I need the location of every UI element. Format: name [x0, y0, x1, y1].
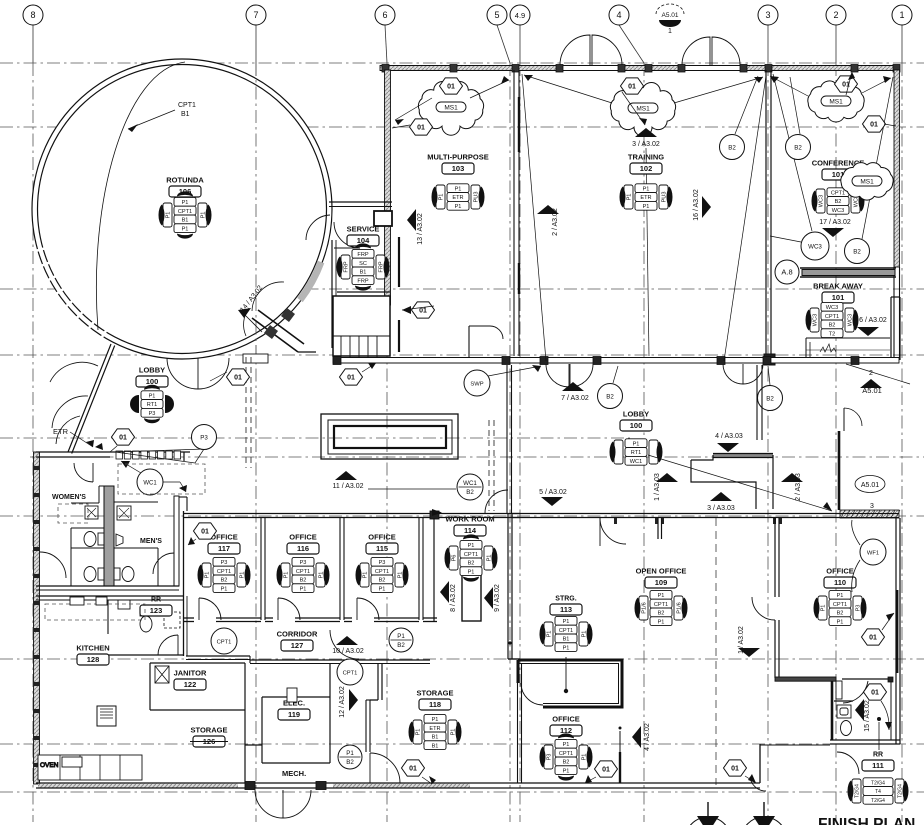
svg-text:KITCHEN: KITCHEN — [76, 644, 109, 653]
svg-text:CPT1: CPT1 — [831, 190, 845, 196]
strg 113 walls — [518, 660, 622, 707]
east wall piece x=839 — [838, 431, 841, 510]
section marker 2/A3.02 — [537, 205, 559, 214]
leader arrowheads — [395, 72, 891, 314]
svg-text:P1: P1 — [205, 572, 211, 579]
keynote hexagon 01 — [440, 78, 463, 94]
small wall marks — [287, 688, 297, 702]
svg-text:WC1: WC1 — [143, 480, 157, 486]
finish tag service 104 — [336, 243, 389, 290]
tag circle WF1 — [860, 539, 886, 565]
svg-text:FRP: FRP — [357, 252, 368, 258]
room label OFFICE 115 — [366, 533, 398, 555]
svg-text:9 / A3.02: 9 / A3.02 — [494, 584, 501, 612]
north wall of lower-left block — [36, 452, 190, 457]
room label ROTUNDA 106 — [166, 176, 204, 198]
svg-text:127: 127 — [291, 641, 304, 650]
svg-text:SC: SC — [359, 261, 367, 267]
svg-text:A5.01: A5.01 — [862, 386, 882, 395]
svg-text:B2: B2 — [379, 578, 386, 584]
svg-text:17 / A3.02: 17 / A3.02 — [819, 219, 851, 226]
leaders clouds/hex to walls — [392, 72, 896, 310]
svg-text:RT1: RT1 — [631, 450, 641, 456]
svg-text:8 / A3.02: 8 / A3.02 — [450, 584, 457, 612]
grid bubble 7 — [246, 5, 266, 25]
rr 111 sink — [837, 705, 852, 736]
svg-text:B2: B2 — [300, 578, 307, 584]
kitchen counters bottom — [38, 755, 142, 780]
wall between multi-purpose 103 and training 102 — [514, 70, 519, 356]
lobby west tag side arrows — [130, 395, 139, 413]
conference sight diagonals — [773, 74, 812, 231]
svg-text:STORAGE: STORAGE — [191, 726, 228, 735]
svg-text:CORRIDOR: CORRIDOR — [277, 630, 318, 639]
svg-text:01: 01 — [201, 529, 209, 536]
storage/mech walls — [245, 744, 262, 746]
svg-text:01: 01 — [347, 375, 355, 382]
svg-text:114: 114 — [464, 526, 477, 535]
section marker 5/A3.02 — [541, 497, 563, 506]
svg-text:101: 101 — [832, 293, 845, 302]
finish tag rr 111 — [847, 778, 908, 804]
tag circle P1/B2 — [389, 628, 413, 652]
keynote hexagon 01 — [340, 369, 363, 385]
finish tag lobby 100 center — [609, 439, 662, 465]
svg-text:P1: P1 — [547, 631, 553, 638]
room label RR 123 — [140, 597, 172, 617]
mech south double doors — [255, 790, 283, 818]
view marker A5.01/3 right — [855, 476, 885, 511]
svg-text:P3: P3 — [300, 560, 307, 566]
svg-text:B2: B2 — [837, 611, 844, 617]
svg-text:6: 6 — [382, 10, 387, 20]
svg-text:P1: P1 — [837, 619, 844, 625]
svg-text:B2: B2 — [468, 561, 475, 567]
svg-text:B2: B2 — [835, 199, 842, 205]
svg-text:CPT1: CPT1 — [178, 209, 192, 215]
kitchen north counter dashed — [45, 604, 145, 620]
svg-text:CPT1: CPT1 — [559, 751, 573, 757]
tag circle WC1/B2 — [457, 474, 483, 500]
wall stub below top wall at x=658 — [657, 518, 659, 539]
svg-text:OFFICE: OFFICE — [289, 533, 317, 542]
tag circle B2 — [598, 384, 623, 409]
top wall double door A (swing up) — [560, 35, 590, 65]
multipurpose SE alcove — [469, 325, 490, 327]
svg-text:1: 1 — [668, 28, 672, 35]
svg-text:B2: B2 — [221, 578, 228, 584]
svg-text:2 / A3.03: 2 / A3.03 — [795, 473, 802, 501]
link wall between wings at grid5 — [506, 365, 508, 513]
svg-text:2 / A3.02: 2 / A3.02 — [552, 208, 559, 236]
svg-text:T2/G4: T2/G4 — [871, 780, 885, 786]
section marker 1/A3.02 — [738, 648, 760, 657]
east wall lower wing — [895, 518, 897, 744]
svg-text:4 / A3.02: 4 / A3.02 — [644, 723, 651, 751]
svg-text:01: 01 — [417, 125, 425, 132]
svg-text:CPT1: CPT1 — [375, 569, 389, 575]
svg-text:P3: P3 — [200, 434, 208, 441]
svg-text:B1: B1 — [563, 637, 570, 643]
vestibule door arcs — [252, 282, 284, 311]
svg-text:6 / A3.02: 6 / A3.02 — [859, 317, 887, 324]
svg-text:P1: P1 — [563, 768, 570, 774]
svg-text:P3: P3 — [221, 560, 228, 566]
finish tag training 102 — [619, 184, 672, 210]
finish tag rotunda 106 — [158, 191, 211, 238]
svg-text:T2/G4: T2/G4 — [855, 784, 861, 798]
women door lower left — [40, 552, 66, 578]
grid lines vertical — [32, 25, 34, 822]
svg-text:P1: P1 — [221, 586, 228, 592]
svg-text:LOBBY: LOBBY — [139, 366, 165, 375]
keynote hexagon 01 — [621, 78, 644, 94]
finish tag lobby 100 west — [141, 385, 163, 423]
svg-text:4 / A3.03: 4 / A3.03 — [715, 433, 743, 440]
tag circle B2 — [786, 135, 811, 160]
svg-text:3: 3 — [765, 10, 770, 20]
svg-text:15 / A3.02: 15 / A3.02 — [864, 700, 871, 732]
svg-text:WC3: WC3 — [808, 243, 822, 250]
svg-text:01: 01 — [870, 122, 878, 129]
svg-text:P1: P1 — [563, 742, 570, 748]
svg-text:A.8: A.8 — [781, 267, 792, 276]
svg-text:LOBBY: LOBBY — [623, 410, 649, 419]
svg-text:7: 7 — [253, 10, 258, 20]
svg-text:B2: B2 — [794, 144, 802, 151]
svg-text:P1: P1 — [455, 204, 462, 210]
svg-text:13 / A3.02: 13 / A3.02 — [417, 213, 424, 245]
svg-text:2: 2 — [833, 10, 838, 20]
svg-text:MULTI-PURPOSE: MULTI-PURPOSE — [427, 153, 489, 162]
breakaway counter — [806, 338, 890, 357]
svg-text:01: 01 — [602, 767, 610, 774]
svg-text:P1: P1 — [468, 543, 475, 549]
rr 111 door arc — [843, 681, 868, 703]
grid bubble 8 — [23, 5, 43, 25]
finish tag work room 114 — [444, 534, 497, 581]
south wall lower wing — [470, 783, 760, 788]
svg-text:ETR: ETR — [640, 195, 651, 201]
svg-text:MS1: MS1 — [829, 99, 843, 106]
svg-text:P3: P3 — [149, 411, 156, 417]
finish tag office 112 — [539, 733, 592, 780]
wall at grid 3 between training and conference — [764, 70, 775, 365]
finish tag conference 101 — [811, 188, 864, 214]
svg-text:01: 01 — [419, 308, 427, 315]
ceiling break dashed double line below rotunda — [245, 357, 247, 468]
room label OFFICE 110 — [824, 567, 856, 589]
svg-text:P1: P1 — [284, 572, 290, 579]
section marker 3/A3.03 — [710, 492, 732, 501]
room label OPEN OFFICE 109 — [636, 567, 687, 589]
svg-text:P1: P1 — [563, 619, 570, 625]
revision cloud MS1 — [418, 81, 483, 135]
section marker 13/A3.02 — [407, 209, 416, 231]
office 112 east wall — [619, 731, 621, 752]
svg-text:CPT1: CPT1 — [178, 102, 196, 109]
svg-text:SERVICE: SERVICE — [347, 225, 380, 234]
svg-text:5 / A3.02: 5 / A3.02 — [539, 489, 567, 496]
grid bubble 3 — [758, 5, 778, 25]
svg-text:B2: B2 — [606, 393, 614, 400]
keynote hexagon 01 — [402, 760, 425, 776]
svg-text:ETR: ETR — [53, 427, 69, 436]
room label LOBBY 100 — [620, 410, 652, 432]
top exterior wall — [380, 65, 899, 72]
men fixtures — [114, 506, 134, 582]
svg-text:P1: P1 — [563, 645, 570, 651]
section marker 16/A3.02 — [702, 196, 711, 218]
svg-text:P1: P1 — [397, 633, 405, 640]
svg-text:ROTUNDA: ROTUNDA — [166, 176, 204, 185]
svg-text:P1: P1 — [300, 586, 307, 592]
tag circle CPT1 — [337, 659, 363, 685]
top wall posts — [382, 65, 389, 73]
svg-text:WC3: WC3 — [832, 208, 844, 214]
finish tag office 110 — [813, 590, 866, 625]
svg-text:B1: B1 — [432, 743, 439, 749]
svg-text:123: 123 — [150, 606, 163, 615]
svg-text:01: 01 — [871, 690, 879, 697]
finish tag office 115 — [355, 557, 408, 592]
svg-text:MEN'S: MEN'S — [140, 538, 162, 545]
service door from rotunda — [306, 215, 330, 240]
svg-text:FRP: FRP — [357, 278, 368, 284]
grid bubble 6 — [375, 5, 395, 25]
grid bubble 4.9 — [510, 5, 530, 25]
tag circle B2 — [758, 386, 783, 411]
svg-text:WORK ROOM: WORK ROOM — [445, 515, 494, 524]
svg-text:5: 5 — [494, 10, 499, 20]
svg-text:P1: P1 — [658, 619, 665, 625]
svg-text:MS1: MS1 — [444, 105, 458, 112]
door swing into middle band at work room — [485, 490, 508, 513]
revision cloud MS1 — [808, 81, 864, 122]
office divider wall — [260, 518, 262, 620]
svg-text:OVEN: OVEN — [40, 762, 59, 769]
south wall lower-left — [36, 782, 470, 790]
svg-text:01: 01 — [869, 635, 877, 642]
finish tag office 116 — [276, 557, 329, 592]
room label STRG. 113 — [550, 596, 582, 616]
svg-text:P1: P1 — [182, 200, 189, 206]
office 110 walls — [774, 518, 776, 597]
planter nested rectangles — [321, 414, 458, 459]
svg-text:P3: P3 — [379, 560, 386, 566]
svg-text:WC3: WC3 — [813, 314, 819, 326]
svg-text:B2: B2 — [829, 323, 836, 329]
grid bubble 5 — [487, 5, 507, 25]
room label STORAGE 126 — [190, 726, 228, 748]
keynote hexagon 01 — [864, 684, 887, 700]
svg-text:SWP: SWP — [470, 381, 483, 387]
finish tag break away 101 — [805, 302, 858, 337]
rotunda east door — [334, 222, 360, 248]
svg-text:CPT1: CPT1 — [217, 569, 231, 575]
men door east — [153, 553, 174, 574]
svg-text:8: 8 — [30, 10, 35, 20]
svg-text:TRAINING: TRAINING — [628, 153, 664, 162]
svg-text:P1: P1 — [363, 572, 369, 579]
office divider wall — [339, 518, 341, 620]
svg-text:113: 113 — [560, 605, 572, 614]
room label ELEC. 119 — [278, 699, 310, 721]
room label CORRIDOR 127 — [277, 630, 318, 652]
svg-text:CPT1: CPT1 — [833, 602, 847, 608]
svg-text:B2: B2 — [397, 642, 405, 649]
toilet block walls — [36, 452, 187, 600]
room label WORK ROOM 114 — [445, 515, 494, 537]
keynote hexagon 01 — [863, 116, 886, 132]
svg-text:16 / A3.02: 16 / A3.02 — [693, 189, 700, 221]
lobby south double door (swing down) — [723, 364, 743, 384]
svg-text:102: 102 — [640, 164, 653, 173]
svg-text:CPT1: CPT1 — [654, 602, 668, 608]
svg-text:B2: B2 — [766, 395, 774, 402]
rotunda interior balcony arc — [96, 62, 185, 330]
lobby angled entry wall — [68, 344, 111, 452]
office doors — [199, 598, 221, 620]
rotunda window mullion dashes lower-left arc — [35, 248, 107, 339]
svg-text:ETR: ETR — [429, 726, 440, 732]
svg-text:103: 103 — [452, 164, 465, 173]
svg-text:JANITOR: JANITOR — [174, 669, 207, 678]
svg-text:118: 118 — [429, 700, 441, 709]
room label LOBBY 100 — [136, 366, 168, 388]
storage 118 west wall — [377, 663, 379, 700]
svg-text:STRG.: STRG. — [555, 596, 576, 603]
svg-text:122: 122 — [184, 680, 197, 689]
rr 111 walls — [775, 677, 900, 744]
svg-text:P1: P1 — [166, 212, 172, 219]
section marker 17/A3.02 — [822, 228, 844, 237]
office divider wall — [418, 518, 420, 620]
svg-text:1: 1 — [899, 10, 904, 20]
svg-text:B2: B2 — [658, 611, 665, 617]
grid bubble 1 — [892, 5, 912, 25]
svg-text:B1: B1 — [432, 735, 439, 741]
svg-text:P1: P1 — [416, 729, 422, 736]
women toilets — [84, 506, 104, 582]
tag circle P3 — [192, 425, 217, 450]
svg-text:A5.01: A5.01 — [662, 12, 679, 19]
svg-text:4.9: 4.9 — [515, 11, 525, 20]
svg-text:01: 01 — [409, 766, 417, 773]
multipurpose west wall dark segments — [398, 237, 400, 287]
svg-text:BREAK AWAY: BREAK AWAY — [813, 282, 863, 291]
svg-text:109: 109 — [655, 578, 668, 587]
room label RR 111 — [862, 752, 894, 772]
section marker 11/A3.02 — [335, 471, 357, 480]
rr label leader dot — [878, 722, 880, 750]
tag circle WC1 — [137, 469, 163, 495]
section marker 12/A3.02 — [349, 689, 358, 711]
svg-text:7 / A3.02: 7 / A3.02 — [561, 395, 589, 402]
section marker 9/A3.02 — [484, 587, 493, 609]
svg-text:11 / A3.02: 11 / A3.02 — [332, 483, 363, 490]
svg-text:OFFICE: OFFICE — [368, 533, 396, 542]
kitchen island — [97, 706, 116, 726]
svg-text:P1: P1 — [837, 593, 844, 599]
west exterior wall of upper wing — [385, 70, 391, 305]
svg-text:P1: P1 — [346, 750, 354, 757]
room label TRAINING 102 — [628, 153, 664, 175]
svg-text:MS1: MS1 — [860, 179, 874, 186]
tag circle WC3 — [801, 232, 829, 260]
cut detail circle bottom left — [685, 802, 731, 825]
svg-text:MECH.: MECH. — [282, 769, 306, 778]
svg-text:1 / A3.02: 1 / A3.02 — [738, 626, 745, 654]
post ticks below top wall — [614, 518, 782, 524]
finish tag multi-purpose 103 — [431, 184, 484, 210]
svg-text:CPT1: CPT1 — [296, 569, 310, 575]
svg-text:3 / A3.03: 3 / A3.03 — [707, 505, 735, 512]
section marker 3 / A3.02 — [635, 128, 657, 137]
section marker 14/A3.02 — [238, 284, 264, 332]
section marker 1/A3.03 — [656, 473, 678, 482]
svg-text:OFFICE: OFFICE — [826, 567, 854, 576]
corridor walls — [250, 659, 430, 661]
keynote hexagon 01 — [112, 429, 135, 445]
section marker 4/A3.03 — [717, 443, 739, 452]
grid lines horizontal — [0, 62, 924, 64]
svg-text:1 / A3.03: 1 / A3.03 — [654, 473, 661, 501]
keynote hexagon 01 — [835, 76, 858, 92]
svg-text:128: 128 — [87, 655, 100, 664]
svg-text:ETR: ETR — [452, 195, 463, 201]
svg-text:B2: B2 — [563, 760, 570, 766]
svg-text:P1/6: P1/6 — [642, 602, 648, 614]
svg-text:P1: P1 — [439, 194, 445, 201]
entry door below rr — [837, 752, 859, 774]
revision cloud MS1 — [610, 82, 675, 136]
view marker A5.01/1 top — [656, 4, 684, 35]
service room walls — [329, 202, 392, 348]
svg-text:P1: P1 — [432, 717, 439, 723]
svg-text:3 / A3.02: 3 / A3.02 — [632, 141, 660, 148]
svg-text:WC3: WC3 — [819, 195, 825, 207]
break away east wall jog — [890, 297, 892, 360]
svg-text:CPT1: CPT1 — [559, 628, 573, 634]
svg-text:RR: RR — [151, 597, 161, 604]
svg-text:115: 115 — [376, 544, 388, 553]
svg-text:P1: P1 — [455, 186, 462, 192]
svg-text:P1: P1 — [658, 593, 665, 599]
wall west of strg/office112 — [517, 663, 519, 783]
leader 11/A3.02 to WC1/B2 — [368, 488, 456, 490]
svg-text:01: 01 — [119, 435, 127, 442]
wall stub at grid3 below breakaway — [756, 365, 758, 440]
svg-text:P6: P6 — [452, 555, 458, 562]
RR 123 room — [108, 600, 250, 663]
grid bubble 2 — [826, 5, 846, 25]
lower wing north wall — [512, 510, 899, 518]
work room west wall — [433, 518, 435, 621]
tag circle B2 — [720, 135, 745, 160]
RR 123 door — [158, 635, 178, 655]
svg-text:T2: T2 — [829, 331, 836, 337]
tag circle SWP — [464, 370, 490, 396]
finish tag storage 118 — [408, 714, 461, 749]
section marker 4/A3.02 — [632, 726, 641, 748]
corridor big arc — [330, 630, 359, 659]
svg-text:WC1: WC1 — [463, 480, 477, 487]
svg-text:P1: P1 — [149, 393, 156, 399]
east exterior wall — [894, 70, 900, 267]
training south double door (swing down) — [546, 364, 569, 387]
tag circle CPT1 — [211, 628, 237, 654]
